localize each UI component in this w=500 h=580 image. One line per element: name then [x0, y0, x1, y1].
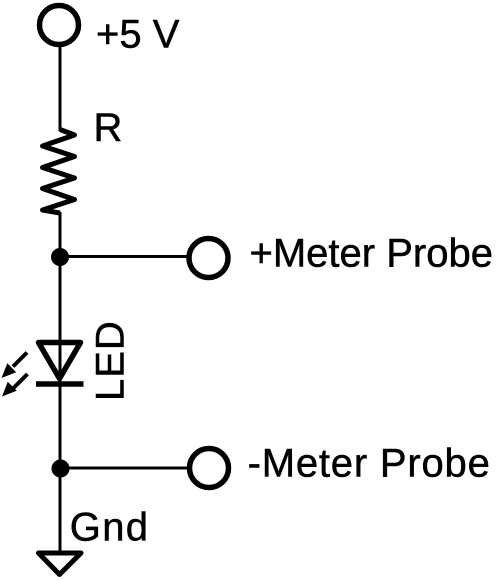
- wire from resistor to node A: [59, 212, 62, 257]
- svg-text:-Meter Probe: -Meter Probe: [248, 441, 491, 485]
- svg-text:Gnd: Gnd: [70, 506, 150, 550]
- node B (junction dot): [52, 460, 70, 478]
- LED arrow 2: [2, 374, 28, 397]
- terminal +5V: [40, 6, 79, 45]
- terminal -Meter Probe: [190, 449, 229, 488]
- svg-text:R: R: [94, 106, 123, 150]
- node A (junction dot): [51, 248, 69, 266]
- wire node A to +meter probe terminal: [60, 255, 190, 258]
- svg-text:+5 V: +5 V: [96, 13, 180, 57]
- LED D1 triangle: [39, 343, 81, 379]
- wire from +5V terminal to resistor: [59, 44, 62, 131]
- ground: [39, 553, 82, 575]
- wire node A to LED anode: [59, 257, 62, 384]
- terminal +Meter Probe: [189, 239, 228, 278]
- wire node B to -meter probe terminal: [60, 467, 190, 470]
- svg-text:LED: LED: [89, 320, 133, 401]
- LED arrow 1: [2, 353, 28, 379]
- LED cathode bar: [36, 381, 84, 387]
- resistor R: [43, 130, 75, 214]
- svg-text:+Meter Probe: +Meter Probe: [250, 232, 493, 276]
- wire LED cathode to node B: [59, 384, 62, 469]
- wire node B to ground: [59, 468, 62, 553]
